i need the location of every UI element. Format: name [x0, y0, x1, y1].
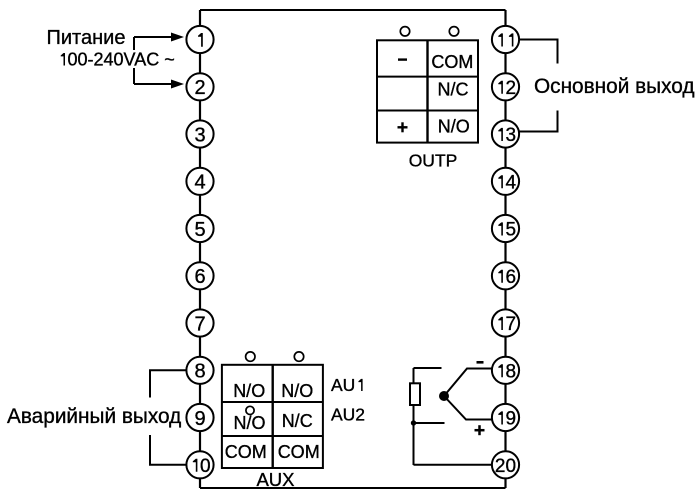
svg-text:7: 7: [194, 313, 205, 335]
wire: junction stub right: [414, 422, 445, 424]
node 19: [492, 404, 519, 431]
svg-text:00-240VAC ~: 00-240VAC ~: [68, 50, 175, 70]
svg-text:Аварийный выход: Аварийный выход: [7, 405, 181, 428]
relay table OUTP frame: [377, 40, 478, 142]
node 16: [492, 262, 519, 289]
wire: bottom border of terminal block: [200, 487, 506, 489]
node 14: [492, 168, 519, 195]
svg-text:Основной выход: Основной выход: [534, 75, 695, 98]
node 6: [186, 262, 213, 289]
label: 100-240VAC ~: [54, 50, 178, 68]
svg-text:6: 6: [506, 267, 517, 288]
polarity label minus (sensor): [477, 361, 484, 364]
wire: right terminal column: [504, 10, 506, 488]
node 12: [492, 73, 519, 100]
node 7: [186, 309, 213, 336]
resistor RTD sensor body: [410, 383, 420, 405]
indicator lamp in AUX AU2 cell: [246, 406, 254, 414]
wire: sensor top stub: [414, 367, 442, 369]
node 8: [186, 357, 213, 384]
relay table AUX row divider 1: [222, 401, 323, 403]
pin label minus (OUTP): [398, 58, 407, 60]
svg-text:2: 2: [194, 77, 205, 99]
node 10: [186, 451, 213, 478]
svg-text:OUTP: OUTP: [409, 151, 458, 171]
wire: bracket to terminal 13: [519, 111, 558, 132]
indicator lamp above AUX table right: [294, 352, 303, 361]
node 1: [186, 26, 213, 53]
svg-text:0: 0: [200, 456, 211, 477]
svg-text:COM: COM: [225, 442, 267, 462]
svg-text:5: 5: [194, 219, 205, 241]
relay table OUTP row divider 2: [377, 110, 478, 112]
wire: thermocouple upper lead to terminal 18: [444, 369, 492, 397]
svg-text:8: 8: [194, 361, 205, 383]
svg-text:3: 3: [506, 125, 517, 146]
svg-text:N/O: N/O: [233, 413, 265, 433]
svg-text:4: 4: [194, 172, 205, 194]
svg-text:N/C: N/C: [438, 80, 469, 100]
wire: arrow to terminal 2: [134, 83, 172, 85]
svg-text:5: 5: [506, 220, 517, 241]
svg-text:0: 0: [506, 456, 517, 477]
svg-text:6: 6: [194, 266, 205, 288]
svg-text:2: 2: [495, 456, 506, 477]
svg-text:2: 2: [506, 78, 517, 99]
svg-text:AUX: AUX: [256, 469, 294, 490]
relay table AUX frame: [222, 365, 323, 468]
wire: bracket from terminal 11: [519, 40, 558, 64]
node 11: [492, 26, 519, 53]
svg-text:COM: COM: [278, 442, 320, 462]
pin label plus (OUTP): [398, 122, 408, 132]
wire: top border of terminal block: [200, 9, 506, 11]
svg-text:AU: AU: [331, 375, 355, 395]
indicator lamp above OUTP table left: [400, 27, 409, 36]
node 13: [492, 120, 519, 147]
node 15: [492, 215, 519, 242]
relay table OUTP column divider: [426, 40, 428, 142]
svg-text:N/O: N/O: [233, 381, 265, 401]
junction dot on sensor left leg: [411, 420, 416, 425]
wire: sensor left leg vertical: [413, 368, 415, 465]
svg-text:COM: COM: [431, 52, 473, 72]
svg-text:N/O: N/O: [438, 117, 470, 137]
relay table AUX row divider 2: [222, 435, 323, 437]
wire: bracket to terminal 10: [150, 435, 187, 465]
wire: arrow to terminal 1: [134, 36, 172, 38]
wire: left terminal column: [199, 10, 201, 488]
svg-text:4: 4: [506, 172, 517, 193]
node 3: [186, 120, 213, 147]
wire: sensor leg to terminal 20: [414, 464, 493, 466]
indicator lamp above OUTP table right: [449, 27, 458, 36]
node 4: [186, 168, 213, 195]
svg-text:AU2: AU2: [331, 405, 365, 425]
node 9: [186, 404, 213, 431]
svg-text:3: 3: [194, 124, 205, 146]
svg-text:Питание: Питание: [47, 27, 126, 49]
svg-text:8: 8: [506, 361, 517, 382]
node 18: [492, 357, 519, 384]
node 5: [186, 215, 213, 242]
svg-text:N/C: N/C: [282, 411, 313, 431]
svg-text:7: 7: [506, 314, 517, 335]
wire: bracket from terminal 8: [150, 370, 187, 397]
svg-text:N/O: N/O: [281, 381, 313, 401]
wire: power label branch vertical: [133, 37, 135, 84]
relay table OUTP row divider 1: [377, 76, 478, 78]
node 2: [186, 73, 213, 100]
polarity label plus (sensor): [475, 425, 485, 435]
node 20: [492, 451, 519, 478]
wire: thermocouple lower lead to terminal 19: [444, 396, 492, 420]
node 17: [492, 309, 519, 336]
indicator lamp above AUX table left: [246, 352, 255, 361]
thermocouple junction dot: [439, 391, 449, 401]
relay table AUX column divider: [272, 365, 274, 468]
svg-text:9: 9: [194, 408, 205, 430]
svg-text:9: 9: [506, 409, 517, 430]
